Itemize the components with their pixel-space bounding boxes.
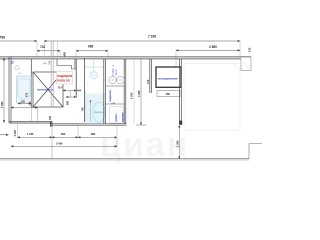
svg-text:600: 600 — [29, 101, 32, 106]
svg-text:ст.маш: ст.маш — [113, 68, 115, 76]
wall corridor bottom — [50, 123, 127, 125]
wall left outer — [8, 57, 10, 123]
svg-text:520: 520 — [21, 101, 26, 104]
svg-text:744: 744 — [40, 45, 46, 49]
wall bathroom1 right — [30, 59, 32, 107]
wall bottom-left band — [9, 120, 52, 122]
ground line — [0, 158, 249, 160]
extension x17.5 — [17, 123, 19, 138]
wall laundry right double — [123, 59, 125, 124]
svg-text:1 980: 1 980 — [0, 101, 4, 108]
wall kitchen left double — [149, 59, 151, 93]
wall laundry left double — [103, 59, 105, 124]
svg-text:унитаз: унитаз — [94, 111, 103, 114]
svg-text:1 095: 1 095 — [13, 129, 17, 136]
tick x70.5 — [70, 91, 72, 98]
below fridge dim box — [157, 91, 180, 97]
ground step top — [249, 143, 262, 145]
laundry divider shelf1 — [106, 85, 125, 87]
extension line x240 — [239, 41, 241, 58]
door swing top right — [243, 62, 251, 70]
fridge box — [156, 67, 181, 87]
vertical tick x37.5 — [37, 108, 39, 122]
dimension vertical 1360 right — [178, 125, 180, 159]
svg-text:996: 996 — [88, 45, 94, 49]
svg-text:ШД: ШД — [49, 60, 51, 64]
ground shadow line — [0, 159, 249, 161]
svg-text:холодильник: холодильник — [158, 77, 178, 81]
faint furniture living room — [184, 64, 240, 131]
svg-text:подогрев: подогрев — [57, 74, 72, 78]
wall end blob — [179, 121, 182, 125]
svg-text:470: 470 — [146, 79, 150, 84]
svg-text:3 065: 3 065 — [137, 90, 141, 97]
svg-text:908: 908 — [66, 100, 69, 105]
svg-text:пола эл.: пола эл. — [57, 79, 70, 83]
wall left inner — [10, 57, 12, 123]
extension line x76 — [75, 51, 77, 58]
wall kitchen right double — [179, 59, 181, 124]
extension line x108 — [107, 51, 109, 57]
bathtub — [17, 76, 32, 103]
svg-text:675: 675 — [26, 92, 29, 97]
svg-text:1 930: 1 930 — [130, 92, 134, 99]
dimension vertical 1980 left — [3, 58, 5, 123]
svg-text:884: 884 — [91, 132, 96, 136]
svg-text:1 798: 1 798 — [0, 36, 5, 40]
dimension line y107.6 — [11, 107, 38, 109]
laundry sink box — [110, 107, 124, 124]
extension line x176 — [175, 50, 177, 67]
extension x78 — [77, 125, 79, 138]
niche step wall — [57, 59, 76, 69]
shower symbol — [93, 59, 95, 72]
left elevation arrow — [0, 134, 9, 136]
wall corner x52 — [50, 121, 52, 127]
wall top outer — [0, 56, 251, 58]
svg-text:2 456: 2 456 — [56, 142, 63, 146]
svg-text:7 196: 7 196 — [148, 35, 156, 39]
extension x117 — [116, 125, 118, 147]
extension x57.4 — [56, 41, 58, 58]
svg-text:2 560: 2 560 — [209, 45, 217, 49]
wall segment x76 double top — [74, 59, 76, 69]
svg-text:890: 890 — [61, 132, 66, 136]
lamp circle bathroom1 — [15, 66, 19, 70]
svg-text:суш.м: суш.м — [115, 69, 117, 76]
dim terminator bar at x141 — [136, 124, 146, 126]
wall top inner — [0, 58, 241, 60]
red note box — [57, 72, 73, 85]
svg-text:464: 464 — [77, 90, 82, 93]
svg-text:130: 130 — [248, 47, 252, 52]
svg-text:190: 190 — [49, 115, 52, 120]
dim tick left of toilet — [90, 101, 92, 123]
light shelf line bathroom2 — [85, 66, 103, 68]
toilet — [93, 102, 105, 122]
svg-text:780: 780 — [166, 92, 171, 96]
svg-text:ПС: ПС — [12, 60, 15, 64]
washer circle — [109, 76, 116, 83]
column top right — [241, 57, 251, 71]
extension line x37 — [36, 41, 38, 57]
svg-text:ШД: ШД — [43, 63, 47, 65]
extension line x60 — [59, 51, 61, 57]
extension x44.5 — [44, 41, 46, 58]
dryer circle — [117, 76, 124, 83]
svg-text:тумба с: тумба с — [115, 113, 118, 122]
vent shaft crossed box — [33, 72, 63, 107]
svg-text:1 236: 1 236 — [27, 132, 34, 136]
gray wall band — [50, 42, 52, 108]
vertical line x52 to ground — [51, 127, 53, 159]
dimension line y90.5 — [63, 90, 76, 92]
svg-text:1 360: 1 360 — [175, 140, 179, 147]
ground step vertical — [248, 144, 250, 159]
dimension line y97 — [66, 96, 76, 98]
wall bathroom2 left — [84, 58, 86, 122]
laundry divider shelf2 — [106, 103, 125, 105]
bathroom2 floor wash — [86, 94, 106, 125]
svg-text:водонагр: водонагр — [109, 90, 112, 102]
svg-text:745: 745 — [82, 107, 85, 112]
dimension line row1 left — [0, 40, 37, 42]
svg-text:714: 714 — [58, 86, 63, 89]
svg-text:раковин: раковин — [123, 112, 125, 122]
svg-text:485: 485 — [62, 52, 66, 57]
